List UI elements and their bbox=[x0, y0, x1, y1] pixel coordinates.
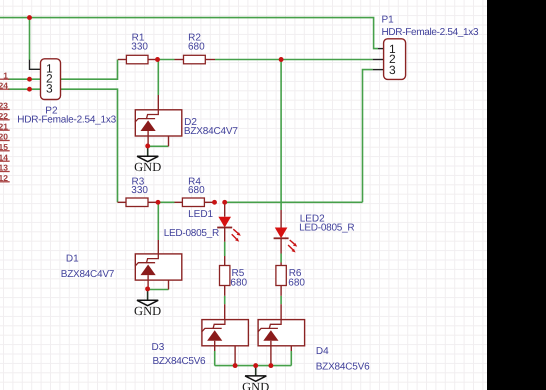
svg-text:330: 330 bbox=[131, 41, 148, 52]
svg-text:BZX84C5V6: BZX84C5V6 bbox=[316, 361, 370, 372]
svg-text:BZX84C4V7: BZX84C4V7 bbox=[61, 269, 115, 280]
svg-text:P1: P1 bbox=[382, 15, 395, 26]
svg-text:GND: GND bbox=[134, 304, 161, 318]
svg-text:24: 24 bbox=[0, 80, 8, 90]
svg-text:BZX84C5V6: BZX84C5V6 bbox=[153, 356, 206, 367]
svg-text:23: 23 bbox=[0, 101, 8, 111]
svg-text:GND: GND bbox=[242, 380, 269, 390]
svg-text:LED1: LED1 bbox=[188, 209, 213, 220]
svg-text:22: 22 bbox=[0, 111, 8, 121]
svg-text:20: 20 bbox=[0, 132, 8, 142]
svg-text:HDR-Female-2.54_1x3: HDR-Female-2.54_1x3 bbox=[17, 115, 116, 126]
svg-text:680: 680 bbox=[188, 41, 205, 52]
svg-text:21: 21 bbox=[0, 121, 8, 131]
svg-text:D3: D3 bbox=[152, 342, 165, 353]
svg-text:1: 1 bbox=[3, 70, 8, 80]
svg-text:3: 3 bbox=[389, 63, 396, 77]
svg-text:LED-0805_R: LED-0805_R bbox=[164, 228, 220, 239]
svg-text:14: 14 bbox=[0, 152, 8, 162]
svg-text:LED-0805_R: LED-0805_R bbox=[299, 223, 355, 234]
svg-text:GND: GND bbox=[134, 160, 161, 174]
svg-text:3: 3 bbox=[46, 81, 53, 95]
svg-text:HDR-Female-2.54_1x3: HDR-Female-2.54_1x3 bbox=[382, 27, 479, 38]
svg-text:680: 680 bbox=[230, 277, 247, 288]
svg-text:680: 680 bbox=[288, 277, 305, 288]
svg-text:680: 680 bbox=[188, 185, 205, 196]
svg-text:D1: D1 bbox=[66, 254, 79, 265]
svg-text:D4: D4 bbox=[316, 346, 329, 357]
svg-text:12: 12 bbox=[0, 173, 8, 183]
svg-text:15: 15 bbox=[0, 142, 8, 152]
svg-text:330: 330 bbox=[131, 185, 148, 196]
svg-text:BZX84C4V7: BZX84C4V7 bbox=[184, 126, 238, 137]
svg-text:13: 13 bbox=[0, 163, 8, 173]
